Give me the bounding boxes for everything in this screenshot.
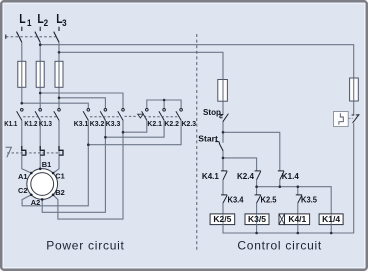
svg-text:K2.3: K2.3: [182, 119, 197, 128]
svg-text:K3.4: K3.4: [228, 195, 245, 204]
svg-text:K3.2: K3.2: [90, 119, 105, 128]
svg-text:K3.1: K3.1: [74, 119, 89, 128]
svg-text:1: 1: [27, 18, 32, 29]
svg-text:C1: C1: [55, 171, 64, 180]
svg-text:K3.5: K3.5: [301, 195, 318, 204]
svg-text:K2.1: K2.1: [147, 119, 162, 128]
svg-text:K1.1: K1.1: [4, 119, 17, 128]
svg-text:K4.1: K4.1: [202, 172, 220, 181]
svg-text:C2: C2: [18, 186, 27, 195]
svg-text:K3.3: K3.3: [106, 119, 121, 128]
svg-text:K2.4: K2.4: [237, 172, 255, 181]
svg-text:K1/4: K1/4: [322, 214, 340, 224]
svg-text:B1: B1: [42, 160, 51, 169]
svg-text:Start: Start: [198, 134, 218, 143]
svg-text:3: 3: [62, 18, 67, 29]
svg-text:L: L: [19, 11, 25, 26]
svg-text:Power circuit: Power circuit: [46, 238, 124, 252]
svg-text:Stop: Stop: [203, 108, 221, 117]
svg-text:K1.4: K1.4: [282, 172, 300, 181]
svg-text:K2.2: K2.2: [164, 119, 179, 128]
svg-text:K1.2: K1.2: [24, 119, 37, 128]
svg-text:A1: A1: [18, 172, 27, 181]
svg-text:2: 2: [44, 18, 49, 29]
svg-text:K2/5: K2/5: [213, 214, 231, 224]
svg-text:Control circuit: Control circuit: [237, 238, 322, 252]
svg-text:K1.3: K1.3: [39, 119, 52, 128]
svg-text:K2.5: K2.5: [261, 195, 278, 204]
svg-text:A2: A2: [31, 198, 40, 207]
svg-text:K4/1: K4/1: [288, 214, 306, 224]
svg-text:B2: B2: [55, 188, 64, 197]
svg-text:K3/5: K3/5: [248, 214, 266, 224]
